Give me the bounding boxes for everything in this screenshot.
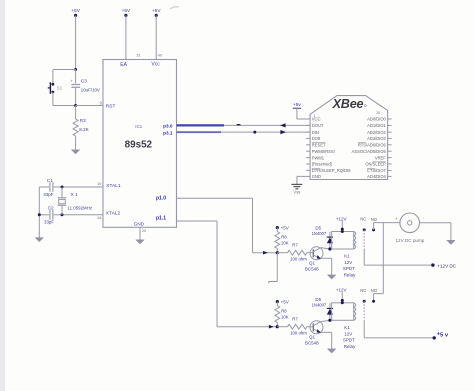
svg-text:20: 20 <box>376 111 380 115</box>
svg-text:12V DC pump: 12V DC pump <box>396 238 425 243</box>
svg-text:C1: C1 <box>47 178 53 184</box>
XBee left pin 6 PWM0/RSSI <box>306 150 310 152</box>
svg-text:89s52: 89s52 <box>125 140 153 151</box>
svg-text:GND: GND <box>134 221 145 226</box>
svg-text:+: + <box>70 79 73 84</box>
svg-text:100 ohm: 100 ohm <box>290 330 307 335</box>
svg-text:100 ohm: 100 ohm <box>290 256 307 261</box>
svg-text:D5: D5 <box>315 226 321 231</box>
svg-text:20: 20 <box>142 228 147 233</box>
svg-text:33pF: 33pF <box>43 192 53 197</box>
svg-text:X 1: X 1 <box>71 192 79 198</box>
wire p3.0 to XBee DOUT (blue net) <box>177 124 225 126</box>
svg-text:ON/SLEEP: ON/SLEEP <box>365 162 386 167</box>
wire p1.1 to relay driver 2 <box>177 220 218 222</box>
wire switch bottom to reset node <box>52 92 54 106</box>
arrowhead DOUT toward IC <box>280 123 286 127</box>
wire IC GND pin down <box>139 227 141 240</box>
wire junction to switch top <box>53 69 76 71</box>
svg-text:R7: R7 <box>292 243 298 248</box>
node on DIN wire <box>253 131 256 134</box>
node collector junction C2n <box>328 319 331 322</box>
svg-text:R8: R8 <box>281 309 287 314</box>
XBee left pin 2 DOUT <box>306 124 310 126</box>
wire p3.1 to XBee DIN (blue net) <box>177 131 222 133</box>
wire relay1 pole to +12V DC <box>363 250 365 265</box>
XBee left pin 8 (Reserved) <box>306 163 310 165</box>
svg-text:SPDT: SPDT <box>343 337 355 342</box>
ground under crystal rail <box>35 238 44 242</box>
XBee right pin 16 RTS/AD6/DIO6 <box>388 144 392 146</box>
svg-text:12V: 12V <box>344 331 352 336</box>
XBee right pin 14 VREF <box>388 157 392 159</box>
arrowhead into node B2 <box>269 325 274 329</box>
resistor R8b 10K <box>276 302 278 306</box>
XBee left pin 1 VCC <box>306 118 310 120</box>
svg-text:PWM1: PWM1 <box>312 155 325 160</box>
svg-text:C2: C2 <box>48 206 54 212</box>
svg-text:+12V: +12V <box>336 216 347 221</box>
svg-text:+5V: +5V <box>122 8 131 14</box>
resistor R8 10K <box>276 228 278 232</box>
svg-text:NC: NC <box>360 288 366 293</box>
svg-text:Q1: Q1 <box>309 335 316 340</box>
svg-text:AD4/DIO4: AD4/DIO4 <box>367 174 386 179</box>
svg-text:12V: 12V <box>344 260 352 265</box>
ground under Q1b <box>327 349 336 353</box>
svg-text:NO: NO <box>371 217 378 222</box>
svg-text:31: 31 <box>136 52 141 57</box>
svg-text:+: + <box>395 216 398 221</box>
smudge artifact top right <box>170 7 179 9</box>
svg-text:EA: EA <box>120 62 127 68</box>
wire +5V rail3 to Vcc pin <box>155 15 157 59</box>
svg-text:11.0592MHz: 11.0592MHz <box>68 205 93 210</box>
capacitor C2 33pF <box>39 214 49 216</box>
svg-text:DOUT: DOUT <box>312 123 324 128</box>
diode D5b 1N4007 <box>329 303 331 320</box>
svg-text:NC: NC <box>360 217 366 222</box>
power +5V VR2 <box>276 300 279 303</box>
wire +5V rail1 to reset node <box>75 15 77 69</box>
wire +5V rail2 to EA pin <box>125 15 127 59</box>
svg-text:RESET: RESET <box>312 143 326 148</box>
node bottom-left junction <box>38 213 41 216</box>
svg-text:GND: GND <box>312 174 321 179</box>
svg-text:p3.0: p3.0 <box>163 123 173 128</box>
wire XBee GND pin to ground <box>297 175 306 177</box>
svg-text:Q1: Q1 <box>309 261 316 266</box>
svg-text:1N4007: 1N4007 <box>312 302 327 307</box>
svg-text:+5V: +5V <box>281 300 289 305</box>
svg-text:C3: C3 <box>81 78 87 84</box>
svg-text:10uF/10V: 10uF/10V <box>81 87 100 92</box>
svg-text:p3.1: p3.1 <box>163 130 173 135</box>
relay K1 armature link <box>363 230 365 250</box>
capacitor C3 <box>75 70 77 84</box>
switch S1 <box>52 83 55 86</box>
XBee right pin 19 AD1/DIO1 <box>388 124 392 126</box>
svg-text:BC548: BC548 <box>305 341 319 346</box>
svg-text:+12V DC: +12V DC <box>437 263 456 268</box>
motor M1 12V DC pump <box>400 213 420 233</box>
XBee left pin 10 GND <box>306 175 310 177</box>
svg-text:+5V: +5V <box>281 226 289 231</box>
relay K1b armature link <box>363 301 365 321</box>
XBee left pin 4 DO8 <box>306 137 310 139</box>
svg-text:AD0/DIO0: AD0/DIO0 <box>367 117 386 122</box>
wire crystal left rail <box>38 187 40 238</box>
svg-text:(Reserved): (Reserved) <box>312 162 333 167</box>
svg-text:+12V: +12V <box>336 288 347 293</box>
svg-text:R8: R8 <box>281 235 287 240</box>
wire relay2 pole to +5 v terminal <box>363 321 365 338</box>
svg-text:Relay: Relay <box>344 344 356 349</box>
XBee right pin 18 AD2/DIO2 <box>388 131 392 133</box>
XBee right pin 11 AD4/DIO4 <box>388 175 392 177</box>
node base junction B2 <box>276 325 279 328</box>
resistor R3 8.2K <box>75 106 77 120</box>
svg-text:Vcc: Vcc <box>151 62 160 68</box>
svg-text:RST: RST <box>106 103 116 109</box>
resistor R7 100 ohm <box>277 252 287 254</box>
svg-text:ASSOC/AD5/DIO5: ASSOC/AD5/DIO5 <box>352 149 387 154</box>
stub wire below node B1 <box>276 253 278 282</box>
power +5V VR1 <box>276 226 279 229</box>
diode D5 1N4007 <box>329 232 331 249</box>
svg-text:DTR/SLEEP_RQ/DI8: DTR/SLEEP_RQ/DI8 <box>312 168 351 173</box>
resistor R7b 100 ohm <box>277 326 287 328</box>
svg-text:BC548: BC548 <box>305 267 319 272</box>
XBee left pin 9 DTR/SLEEP_RQ/DI8 <box>306 169 310 171</box>
svg-text:DIN: DIN <box>312 130 319 135</box>
node RST junction <box>74 104 77 107</box>
ground under R3 <box>71 150 80 154</box>
wire relay1 NO to pump <box>373 223 375 230</box>
wire RST node to IC pin 9 <box>76 105 103 107</box>
relay K1b coil <box>332 303 354 321</box>
svg-text:33pF: 33pF <box>44 219 54 224</box>
relay K1 coil <box>332 232 354 250</box>
wire p1.0 to relay driver 1 <box>177 197 253 199</box>
IC U1 89s52 body <box>103 60 177 228</box>
svg-text:18: 18 <box>97 215 102 220</box>
node reset top junction <box>74 68 77 71</box>
svg-text:p1.1: p1.1 <box>156 216 166 222</box>
node +5 v terminal <box>433 336 436 339</box>
svg-text:p1.0: p1.0 <box>156 196 166 202</box>
node +12V DC terminal <box>431 263 434 266</box>
capacitor C1 33pF <box>39 186 49 188</box>
svg-text:10K: 10K <box>281 315 289 320</box>
svg-text:VCC: VCC <box>312 117 321 122</box>
XBee module U2 body <box>310 96 388 180</box>
svg-text:IC1: IC1 <box>135 124 142 129</box>
svg-text:XTAL1: XTAL1 <box>106 183 121 189</box>
wire NO1 node down to relay2 NO <box>382 223 384 294</box>
XBee left pin 3 DIN <box>306 131 310 133</box>
svg-text:AD1/DIO1: AD1/DIO1 <box>367 123 386 128</box>
XBee left pin 7 PWM1 <box>306 157 310 159</box>
transistor Q1b BC548 <box>310 321 323 334</box>
XBee right pin 15 ASSOC/AD5/DIO5 <box>388 150 392 152</box>
svg-text:D5: D5 <box>315 297 321 302</box>
svg-text:SPDT: SPDT <box>343 266 355 271</box>
svg-text:DO8: DO8 <box>312 136 321 141</box>
svg-text:10K: 10K <box>281 241 289 246</box>
arrowhead into node B1 <box>263 251 268 255</box>
node XTAL1 junction <box>61 186 64 189</box>
svg-text:R3: R3 <box>80 118 86 123</box>
svg-text:40: 40 <box>158 52 163 57</box>
svg-text:K1: K1 <box>344 254 350 259</box>
XBee left pin 5 RESET <box>306 144 310 146</box>
svg-text:R7: R7 <box>292 317 298 322</box>
transistor Q1 BC548 <box>310 247 323 260</box>
svg-text:AD2/DIO2: AD2/DIO2 <box>367 130 386 135</box>
wire +5v to XBee VCC pin <box>296 108 298 119</box>
XBee right pin 17 AD3/DIO3 <box>388 137 392 139</box>
svg-text:8.2K: 8.2K <box>79 127 89 132</box>
svg-text:XBee: XBee <box>332 97 364 111</box>
node base junction B1 <box>276 251 279 254</box>
svg-text:Relay: Relay <box>344 273 356 278</box>
wire pump to ground <box>420 222 451 224</box>
svg-text:RTS/AD6/DIO6: RTS/AD6/DIO6 <box>358 143 387 148</box>
crystal X1 11.0592MHz <box>61 187 63 197</box>
svg-text:Vss: Vss <box>293 190 300 195</box>
ground under Q1 <box>327 275 336 279</box>
node XTAL2 junction <box>61 213 64 216</box>
svg-text:S1: S1 <box>57 86 63 91</box>
XBee right pin 20 AD0/DIO0 <box>388 118 392 120</box>
svg-text:CTS/DIO7: CTS/DIO7 <box>367 168 387 173</box>
svg-text:VREF: VREF <box>375 155 386 160</box>
arrowhead DIN toward XBee <box>280 130 286 134</box>
svg-text:PWM0/RSSI: PWM0/RSSI <box>312 149 335 154</box>
svg-text:19: 19 <box>97 181 102 186</box>
svg-text:K1: K1 <box>344 325 350 330</box>
svg-text:XTAL2: XTAL2 <box>106 210 121 216</box>
ground under IC <box>136 240 144 244</box>
node collector junction C1n <box>328 247 331 250</box>
svg-text:AD3/DIO3: AD3/DIO3 <box>367 136 386 141</box>
svg-text:+5V: +5V <box>152 8 161 14</box>
svg-text:+5V: +5V <box>71 8 80 14</box>
svg-text:+5v: +5v <box>293 102 301 108</box>
XBee right pin 13 ON/SLEEP <box>388 163 392 165</box>
ground Vss under XBee <box>291 183 302 185</box>
svg-text:NO: NO <box>371 288 378 293</box>
svg-text:1N4007: 1N4007 <box>312 231 327 236</box>
XBee right pin 12 CTS/DIO7 <box>388 169 392 171</box>
ground under pump <box>447 240 456 244</box>
